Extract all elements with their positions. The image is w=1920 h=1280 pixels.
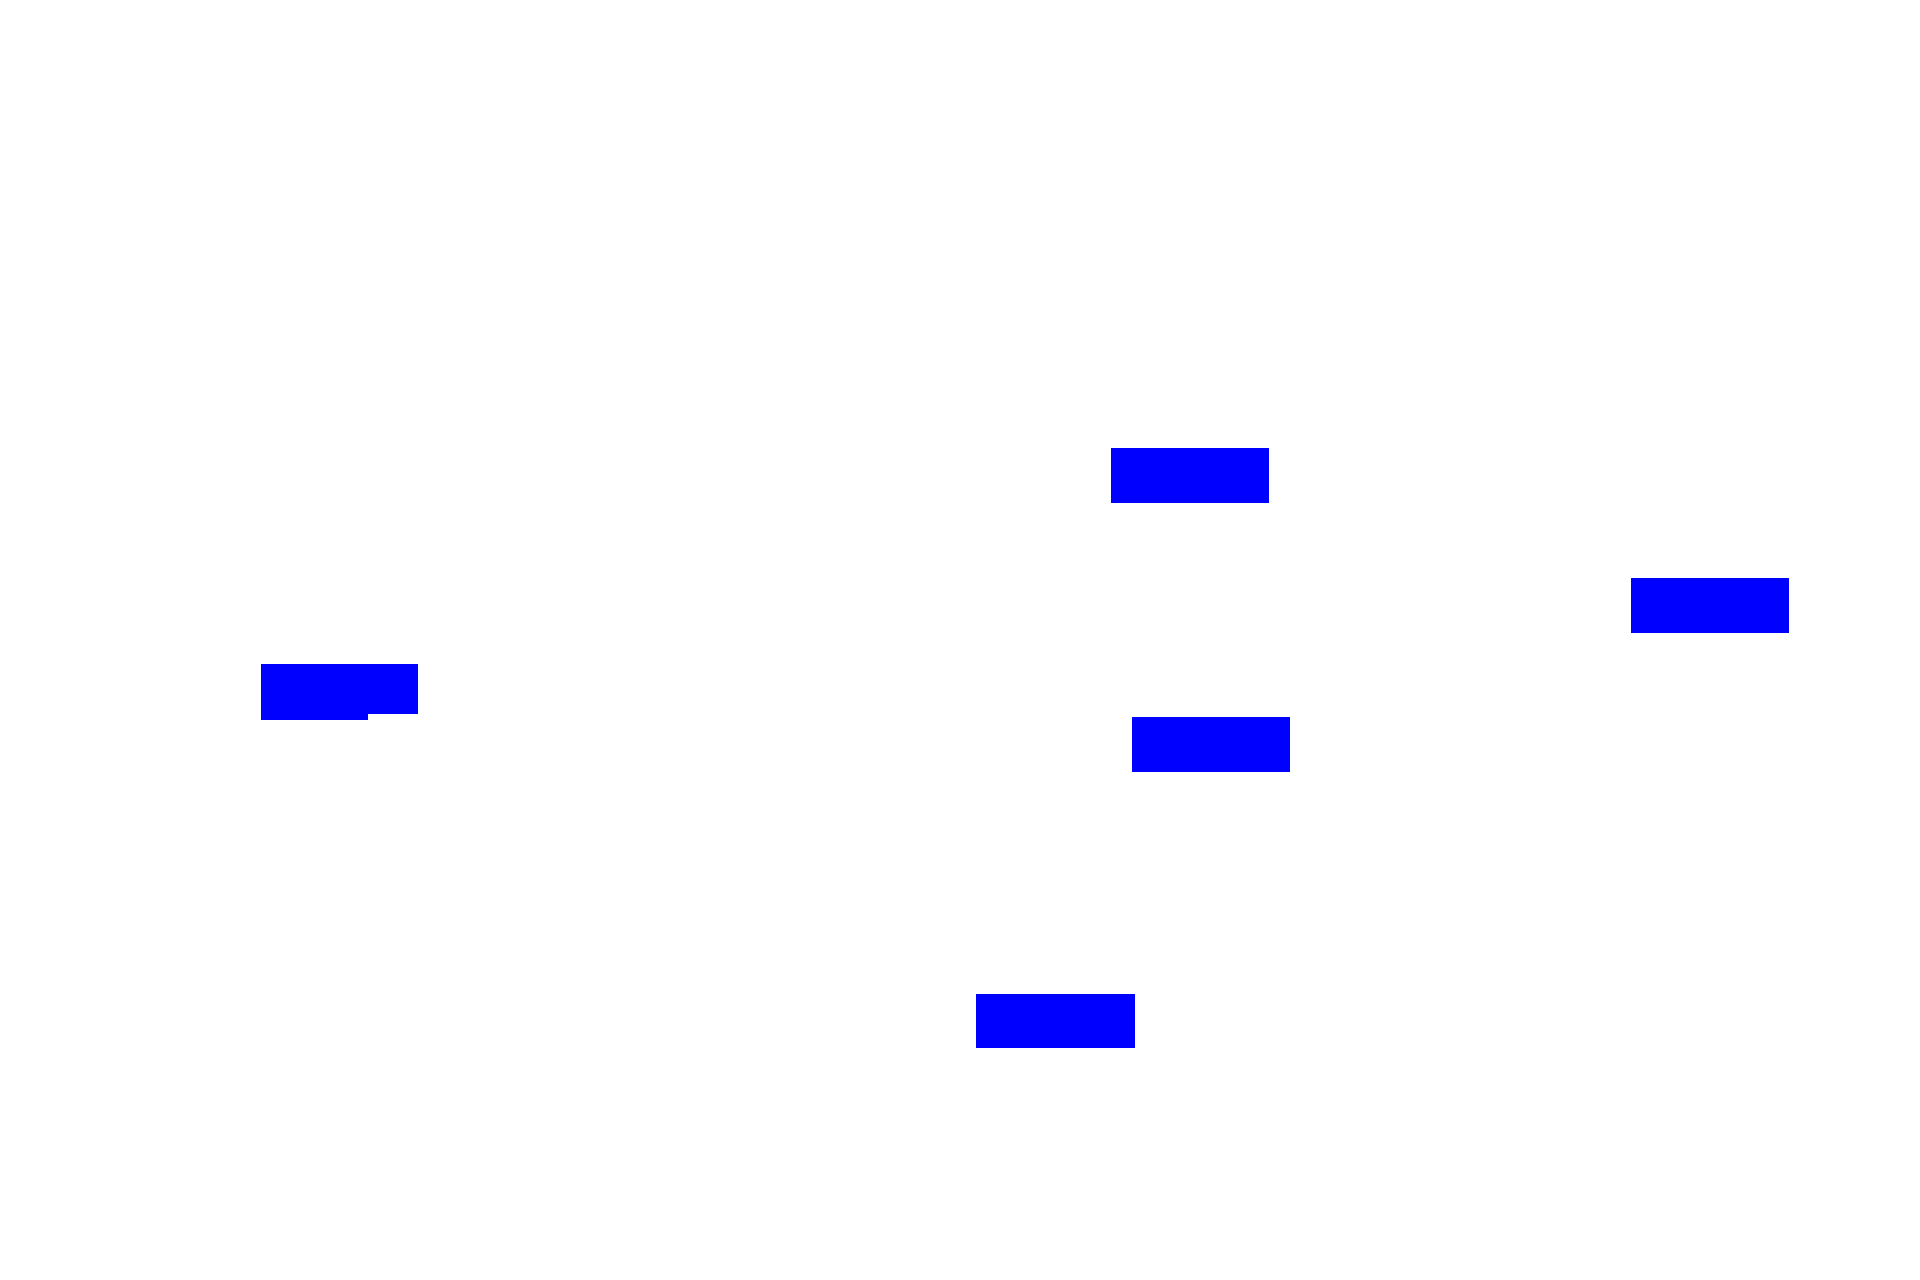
blue box D: [1132, 717, 1290, 772]
blue box B: [1631, 578, 1789, 633]
blue box A: [1111, 448, 1269, 503]
blue box C (L-shape lower-left part): [261, 664, 368, 720]
blue box C (L-shape upper part): [261, 664, 418, 714]
blue box E: [976, 994, 1135, 1048]
